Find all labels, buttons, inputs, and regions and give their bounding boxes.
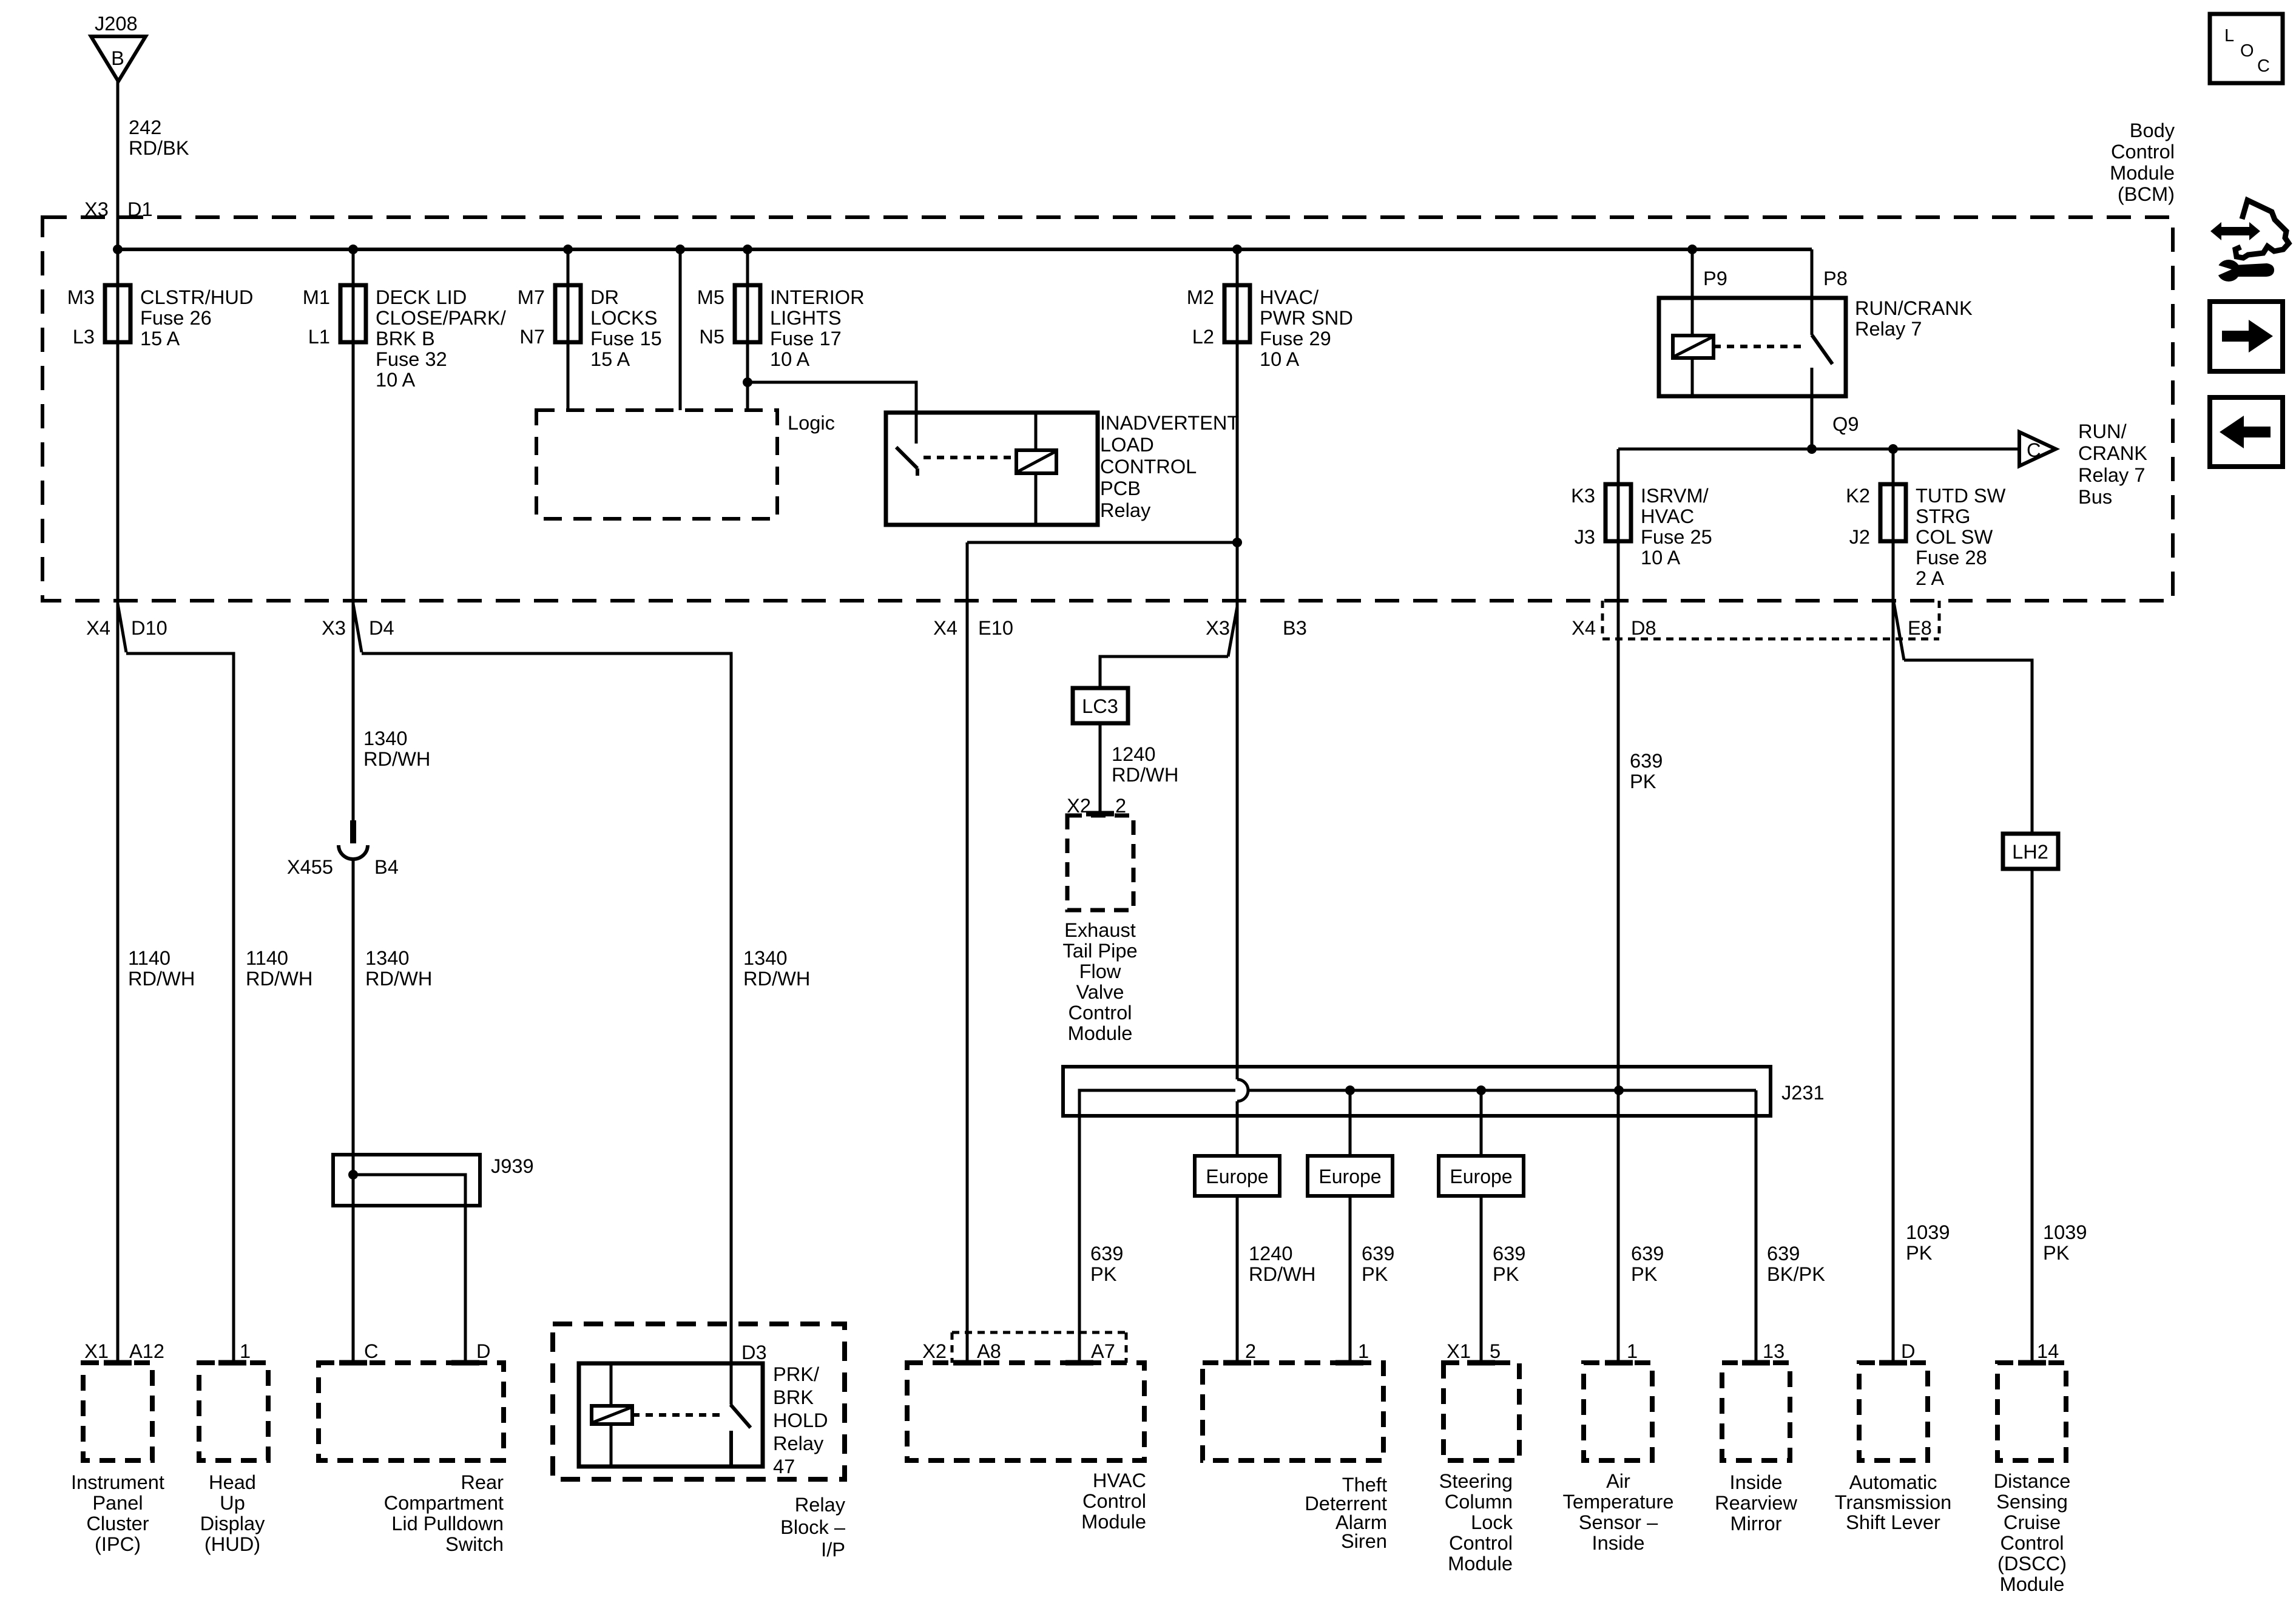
svg-text:RD/WH: RD/WH: [365, 967, 432, 990]
svg-text:J939: J939: [491, 1155, 534, 1177]
svg-text:Lock: Lock: [1471, 1511, 1513, 1533]
svg-text:Bus: Bus: [2078, 485, 2112, 508]
svg-text:I/P: I/P: [821, 1538, 845, 1561]
svg-text:LIGHTS: LIGHTS: [770, 306, 842, 329]
svg-text:J3: J3: [1575, 525, 1595, 548]
svg-text:PK: PK: [2043, 1241, 2070, 1264]
svg-text:A7: A7: [1091, 1340, 1115, 1362]
svg-text:PK: PK: [1630, 770, 1656, 792]
svg-text:Control: Control: [2111, 140, 2175, 163]
svg-text:Control: Control: [1068, 1001, 1132, 1024]
svg-text:X4: X4: [933, 616, 957, 639]
svg-text:X1: X1: [1447, 1340, 1471, 1362]
svg-text:B: B: [111, 47, 124, 69]
svg-text:LOAD: LOAD: [1100, 433, 1154, 456]
svg-text:HVAC: HVAC: [1641, 505, 1694, 527]
svg-text:1240: 1240: [1112, 743, 1155, 765]
svg-text:DECK LID: DECK LID: [376, 286, 467, 308]
svg-text:X2: X2: [1067, 794, 1091, 817]
svg-text:PK: PK: [1362, 1263, 1388, 1285]
svg-text:Fuse 15: Fuse 15: [590, 327, 662, 349]
svg-text:1: 1: [240, 1340, 251, 1362]
svg-text:Europe: Europe: [1450, 1166, 1512, 1187]
svg-text:L2: L2: [1192, 325, 1214, 348]
svg-text:242: 242: [129, 116, 161, 138]
svg-text:639: 639: [1631, 1242, 1664, 1264]
svg-text:K2: K2: [1846, 484, 1870, 507]
svg-text:C: C: [364, 1340, 379, 1362]
svg-text:Distance: Distance: [1994, 1470, 2071, 1492]
svg-text:INTERIOR: INTERIOR: [770, 286, 865, 308]
svg-text:Body: Body: [2130, 119, 2175, 141]
svg-text:Inside: Inside: [1592, 1531, 1645, 1554]
svg-text:Module: Module: [2110, 161, 2175, 184]
svg-text:Steering: Steering: [1439, 1470, 1513, 1492]
svg-text:15 A: 15 A: [590, 348, 630, 370]
svg-text:STRG: STRG: [1916, 505, 1971, 527]
svg-text:Tail Pipe: Tail Pipe: [1062, 939, 1137, 962]
svg-text:639: 639: [1493, 1242, 1525, 1264]
svg-text:L1: L1: [308, 325, 330, 348]
svg-text:RD/BK: RD/BK: [129, 137, 189, 159]
svg-text:639: 639: [1767, 1242, 1800, 1264]
svg-text:1140: 1140: [128, 947, 171, 969]
svg-text:HVAC: HVAC: [1093, 1469, 1146, 1491]
svg-text:Sensor –: Sensor –: [1579, 1511, 1658, 1533]
svg-text:Europe: Europe: [1319, 1166, 1381, 1187]
svg-text:C: C: [2257, 56, 2270, 76]
svg-text:Control: Control: [1449, 1531, 1513, 1554]
svg-text:X1: X1: [84, 1340, 109, 1362]
svg-text:Valve: Valve: [1076, 981, 1124, 1003]
svg-text:M3: M3: [67, 286, 95, 308]
svg-text:1340: 1340: [743, 947, 787, 969]
svg-text:RD/WH: RD/WH: [128, 967, 195, 990]
svg-text:Europe: Europe: [1206, 1166, 1268, 1187]
svg-text:D: D: [476, 1340, 491, 1362]
svg-text:K3: K3: [1571, 484, 1595, 507]
svg-text:CLOSE/PARK/: CLOSE/PARK/: [376, 306, 507, 329]
svg-text:639: 639: [1090, 1242, 1123, 1264]
svg-text:Control: Control: [2000, 1531, 2064, 1554]
svg-text:Rearview: Rearview: [1715, 1491, 1797, 1514]
svg-text:PK: PK: [1906, 1241, 1933, 1264]
svg-text:D3: D3: [741, 1341, 767, 1363]
svg-text:J2: J2: [1849, 525, 1870, 548]
svg-text:BRK: BRK: [773, 1386, 814, 1408]
svg-text:Fuse 32: Fuse 32: [376, 348, 447, 370]
svg-text:ISRVM/: ISRVM/: [1641, 484, 1709, 507]
svg-text:2: 2: [1115, 794, 1126, 817]
svg-text:Fuse 17: Fuse 17: [770, 327, 842, 349]
svg-text:D8: D8: [1631, 616, 1656, 639]
svg-text:Q9: Q9: [1832, 413, 1859, 435]
svg-text:Sensing: Sensing: [1996, 1490, 2068, 1513]
svg-text:X3: X3: [84, 198, 109, 220]
svg-text:10 A: 10 A: [770, 348, 809, 370]
svg-text:Flow: Flow: [1079, 960, 1121, 982]
svg-text:Cruise: Cruise: [2004, 1511, 2061, 1533]
svg-text:CRANK: CRANK: [2078, 442, 2147, 464]
svg-text:COL SW: COL SW: [1916, 525, 1993, 548]
svg-text:TUTD SW: TUTD SW: [1916, 484, 2006, 507]
svg-text:Lid Pulldown: Lid Pulldown: [391, 1512, 504, 1534]
svg-text:Module: Module: [1068, 1022, 1133, 1044]
svg-text:15 A: 15 A: [140, 327, 180, 349]
svg-text:E8: E8: [1908, 616, 1932, 639]
svg-text:RD/WH: RD/WH: [246, 967, 312, 990]
svg-text:Module: Module: [1448, 1552, 1513, 1575]
svg-text:N7: N7: [519, 325, 545, 348]
svg-text:X4: X4: [1572, 616, 1596, 639]
svg-text:D: D: [1901, 1340, 1916, 1362]
svg-text:639: 639: [1362, 1242, 1394, 1264]
svg-text:Rear: Rear: [461, 1471, 504, 1493]
svg-text:(IPC): (IPC): [95, 1533, 141, 1555]
svg-text:PWR SND: PWR SND: [1260, 306, 1353, 329]
svg-text:Relay: Relay: [1100, 499, 1151, 521]
svg-text:5: 5: [1490, 1340, 1501, 1362]
svg-text:Display: Display: [200, 1512, 266, 1534]
svg-text:PRK/: PRK/: [773, 1363, 820, 1385]
svg-text:BK/PK: BK/PK: [1767, 1263, 1825, 1285]
svg-text:1340: 1340: [363, 727, 407, 749]
svg-text:1240: 1240: [1249, 1242, 1292, 1264]
svg-text:L3: L3: [73, 325, 95, 348]
svg-text:Fuse 26: Fuse 26: [140, 306, 212, 329]
svg-text:RD/WH: RD/WH: [363, 748, 430, 770]
svg-text:E10: E10: [978, 616, 1013, 639]
svg-text:Switch: Switch: [445, 1533, 504, 1555]
svg-text:DR: DR: [590, 286, 619, 308]
svg-text:A8: A8: [977, 1340, 1001, 1362]
svg-text:HOLD: HOLD: [773, 1409, 828, 1431]
svg-text:Relay: Relay: [773, 1432, 824, 1454]
svg-text:N5: N5: [699, 325, 724, 348]
svg-text:(BCM): (BCM): [2118, 183, 2175, 205]
svg-text:M7: M7: [518, 286, 545, 308]
svg-text:B3: B3: [1283, 616, 1307, 639]
svg-text:10 A: 10 A: [1641, 546, 1680, 569]
svg-text:1340: 1340: [365, 947, 409, 969]
svg-text:M5: M5: [697, 286, 724, 308]
svg-text:Temperature: Temperature: [1563, 1490, 1674, 1513]
svg-text:Control: Control: [1082, 1490, 1146, 1512]
svg-text:PK: PK: [1090, 1263, 1117, 1285]
svg-text:Head: Head: [209, 1471, 256, 1493]
svg-text:P8: P8: [1823, 267, 1848, 289]
svg-text:O: O: [2240, 41, 2254, 61]
svg-text:D4: D4: [369, 616, 394, 639]
svg-text:(DSCC): (DSCC): [1997, 1552, 2067, 1575]
svg-text:Relay: Relay: [795, 1493, 846, 1516]
svg-text:J208: J208: [95, 12, 138, 35]
svg-text:M1: M1: [303, 286, 330, 308]
svg-text:Compartment: Compartment: [384, 1491, 504, 1514]
svg-text:X4: X4: [86, 616, 110, 639]
svg-text:P9: P9: [1703, 267, 1727, 289]
svg-text:C: C: [2027, 439, 2041, 461]
svg-text:Air: Air: [1606, 1470, 1630, 1492]
svg-text:Fuse 25: Fuse 25: [1641, 525, 1712, 548]
svg-text:Block –: Block –: [780, 1516, 846, 1538]
svg-text:Automatic: Automatic: [1849, 1471, 1937, 1493]
svg-text:Module: Module: [2000, 1573, 2065, 1595]
svg-text:LH2: LH2: [2012, 840, 2048, 863]
svg-text:Up: Up: [220, 1491, 245, 1514]
svg-text:1: 1: [1627, 1340, 1638, 1362]
svg-text:HVAC/: HVAC/: [1260, 286, 1319, 308]
svg-text:X3: X3: [1206, 616, 1230, 639]
svg-text:RD/WH: RD/WH: [1112, 763, 1178, 786]
svg-text:Siren: Siren: [1341, 1530, 1387, 1552]
svg-text:1039: 1039: [2043, 1221, 2087, 1243]
svg-text:47: 47: [773, 1455, 795, 1477]
svg-text:Inside: Inside: [1730, 1471, 1783, 1493]
svg-text:Transmission: Transmission: [1835, 1491, 1952, 1513]
svg-text:RUN/: RUN/: [2078, 420, 2127, 442]
svg-text:RD/WH: RD/WH: [1249, 1263, 1315, 1285]
svg-text:LOCKS: LOCKS: [590, 306, 657, 329]
svg-text:Column: Column: [1445, 1490, 1513, 1513]
svg-text:10 A: 10 A: [1260, 348, 1299, 370]
svg-text:639: 639: [1630, 749, 1663, 772]
svg-text:Mirror: Mirror: [1730, 1512, 1781, 1534]
svg-text:Exhaust: Exhaust: [1064, 919, 1136, 941]
svg-text:PCB: PCB: [1100, 477, 1141, 499]
svg-text:PK: PK: [1493, 1263, 1519, 1285]
svg-text:Module: Module: [1081, 1510, 1146, 1533]
svg-text:CONTROL: CONTROL: [1100, 455, 1197, 478]
svg-text:Cluster: Cluster: [86, 1512, 149, 1534]
svg-text:Panel: Panel: [92, 1491, 143, 1514]
svg-text:1039: 1039: [1906, 1221, 1950, 1243]
svg-text:X3: X3: [322, 616, 346, 639]
svg-text:(HUD): (HUD): [204, 1533, 260, 1555]
svg-text:Fuse 29: Fuse 29: [1260, 327, 1331, 349]
svg-text:1: 1: [1358, 1340, 1369, 1362]
svg-text:X455: X455: [287, 856, 333, 878]
svg-text:BRK B: BRK B: [376, 327, 435, 349]
svg-text:Relay 7: Relay 7: [1855, 317, 1922, 340]
svg-text:A12: A12: [129, 1340, 164, 1362]
svg-text:CLSTR/HUD: CLSTR/HUD: [140, 286, 253, 308]
svg-text:M2: M2: [1187, 286, 1214, 308]
svg-text:B4: B4: [374, 856, 399, 878]
svg-text:1140: 1140: [246, 947, 288, 969]
svg-text:Shift Lever: Shift Lever: [1846, 1511, 1940, 1533]
svg-text:Fuse 28: Fuse 28: [1916, 546, 1987, 569]
svg-text:2 A: 2 A: [1916, 567, 1944, 589]
svg-text:X2: X2: [922, 1340, 947, 1362]
svg-text:Instrument: Instrument: [71, 1471, 164, 1493]
svg-text:PK: PK: [1631, 1263, 1658, 1285]
svg-text:D1: D1: [127, 198, 153, 220]
svg-text:INADVERTENT: INADVERTENT: [1100, 411, 1239, 434]
svg-text:L: L: [2224, 26, 2234, 46]
svg-text:14: 14: [2037, 1340, 2059, 1362]
svg-text:13: 13: [1763, 1340, 1784, 1362]
svg-text:RUN/CRANK: RUN/CRANK: [1855, 297, 1973, 319]
svg-text:Relay 7: Relay 7: [2078, 464, 2145, 486]
svg-text:Logic: Logic: [788, 411, 835, 434]
svg-text:RD/WH: RD/WH: [743, 967, 810, 990]
svg-text:J231: J231: [1781, 1081, 1825, 1104]
svg-text:LC3: LC3: [1082, 695, 1118, 717]
svg-text:10 A: 10 A: [376, 368, 415, 391]
svg-text:2: 2: [1245, 1340, 1256, 1362]
svg-text:D10: D10: [131, 616, 167, 639]
